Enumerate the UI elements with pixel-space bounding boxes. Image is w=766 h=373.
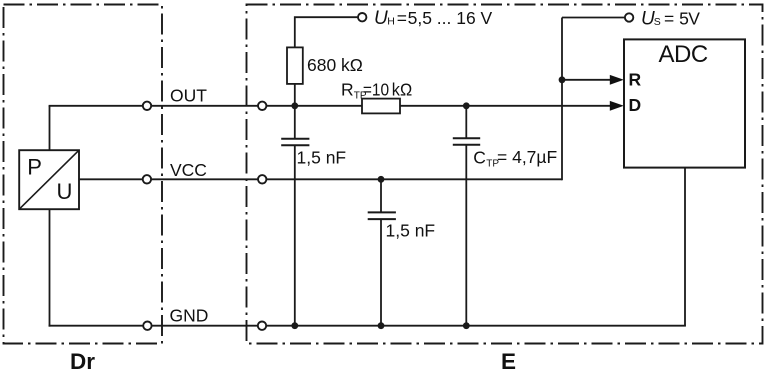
ADC block xyxy=(624,39,745,167)
terminal OUT (Dr side) xyxy=(143,102,151,110)
wire to ADC D input xyxy=(466,105,611,107)
svg-text:Dr: Dr xyxy=(70,349,95,373)
svg-text:D: D xyxy=(629,95,642,115)
wire US riser xyxy=(561,18,563,181)
svg-text:OUT: OUT xyxy=(170,86,207,106)
arrow into R xyxy=(610,75,624,85)
svg-text:E: E xyxy=(501,349,516,373)
svg-text:= 5: = 5 xyxy=(664,8,689,28)
terminal US xyxy=(625,13,633,21)
svg-text:P: P xyxy=(27,155,42,180)
terminal VCC (E side) xyxy=(258,175,266,183)
svg-text:VCC: VCC xyxy=(170,160,207,180)
capacitor C2 1,5 nF (on VCC) xyxy=(368,179,396,325)
wire resistor to OUT node xyxy=(294,84,296,106)
node CTP/GND junction xyxy=(463,322,470,329)
node C1/GND junction xyxy=(291,322,298,329)
node OUT/680k junction xyxy=(291,102,298,109)
terminal U_H xyxy=(358,13,366,21)
capacitor C1 1,5 nF (on OUT) xyxy=(281,106,309,326)
svg-text:=10: =10 xyxy=(363,80,389,100)
wire OUT inside Dr xyxy=(49,105,143,107)
arrow into D xyxy=(610,101,624,111)
wire VCC to US riser xyxy=(267,178,562,180)
wire sensor output to OUT line xyxy=(49,106,51,150)
svg-text:680 kΩ: 680 kΩ xyxy=(307,55,363,75)
wire OUT to RTP xyxy=(267,105,362,107)
sensor U1 (P/U pressure sensor) xyxy=(19,150,79,209)
svg-text:5,5 ... 16 V: 5,5 ... 16 V xyxy=(408,8,493,28)
wire ADC ground xyxy=(684,168,686,326)
wire U_H supply xyxy=(295,17,358,47)
node R-branch junction xyxy=(559,76,566,83)
svg-text:GND: GND xyxy=(170,306,209,326)
svg-text:U: U xyxy=(57,179,73,204)
resistor RTP=10 kOhm xyxy=(362,99,400,114)
node CTP junction xyxy=(463,102,470,109)
svg-text:V: V xyxy=(688,8,700,28)
wire VCC between connectors xyxy=(152,178,258,180)
svg-text:S: S xyxy=(654,16,661,28)
svg-text:1,5 nF: 1,5 nF xyxy=(386,221,436,241)
svg-text:1,5 nF: 1,5 nF xyxy=(297,148,347,168)
capacitor CTP=4,7 uF xyxy=(453,106,480,326)
terminal GND (Dr side) xyxy=(143,322,151,330)
terminal GND (E side) xyxy=(258,322,266,330)
wire GND inside Dr xyxy=(49,325,143,327)
svg-text:C: C xyxy=(473,148,486,168)
wire RTP to CTP node xyxy=(400,105,466,107)
wire sensor GND down xyxy=(49,209,51,326)
resistor 680 kOhm xyxy=(287,47,303,84)
svg-text:U: U xyxy=(374,8,388,29)
terminal VCC (Dr side) xyxy=(143,175,151,183)
svg-text:R: R xyxy=(341,80,354,100)
svg-text:= 4,7µF: = 4,7µF xyxy=(497,147,557,167)
svg-text:kΩ: kΩ xyxy=(392,80,412,100)
wire GND between connectors xyxy=(152,325,257,327)
svg-text:ADC: ADC xyxy=(659,41,708,68)
enclosure Dr (dash-dot border) xyxy=(4,5,163,344)
wire OUT between connectors xyxy=(152,105,258,107)
wire GND bus in E xyxy=(267,325,686,327)
terminal OUT (E side) xyxy=(258,102,266,110)
svg-text:=: = xyxy=(397,8,407,28)
svg-text:R: R xyxy=(629,70,642,90)
node C2/GND junction xyxy=(378,322,385,329)
wire US horizontal xyxy=(562,17,625,19)
wire sensor VCC xyxy=(79,178,142,180)
enclosure E (dash-dot border) xyxy=(247,5,763,344)
svg-text:H: H xyxy=(387,16,395,28)
wire to ADC R input xyxy=(562,79,611,81)
node C2/VCC junction xyxy=(378,176,385,183)
